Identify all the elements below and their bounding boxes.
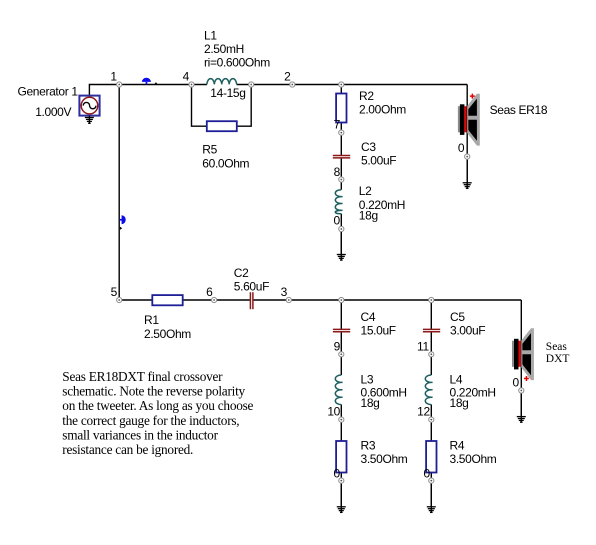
wire DXT speaker drop	[520, 300, 522, 391]
node 2	[290, 82, 295, 87]
ground DXT branch	[517, 393, 526, 422]
svg-text:on the tweeter. As long as you: on the tweeter. As long as you choose	[62, 398, 253, 413]
svg-text:0: 0	[423, 467, 430, 481]
inductor L4 coil	[425, 375, 432, 405]
resistor R3	[336, 441, 346, 473]
svg-text:1: 1	[110, 70, 117, 84]
svg-text:7: 7	[334, 118, 341, 132]
resistor R1	[152, 295, 182, 305]
svg-text:0: 0	[512, 376, 519, 390]
inductor L2 coil	[335, 190, 342, 214]
svg-text:14-15g: 14-15g	[210, 86, 245, 100]
svg-text:18g: 18g	[450, 396, 469, 410]
svg-text:2.00Ohm: 2.00Ohm	[359, 103, 406, 117]
svg-text:10: 10	[327, 405, 340, 419]
node 12	[429, 417, 434, 422]
node 3	[286, 297, 291, 302]
wire node 0 to ground (L2 branch)	[340, 229, 342, 255]
node 8	[339, 177, 344, 182]
svg-text:C5: C5	[450, 310, 465, 324]
svg-text:L2: L2	[359, 184, 372, 198]
node at L1 right	[249, 82, 254, 87]
ground under generator	[85, 116, 94, 124]
blue probe marker on top rail	[142, 78, 151, 85]
svg-text:18g: 18g	[359, 208, 378, 222]
svg-text:11: 11	[417, 339, 429, 353]
node 0 ER18	[465, 154, 470, 159]
svg-text:2: 2	[284, 70, 291, 84]
black arrow tick on top rail	[154, 82, 157, 84]
svg-text:R2: R2	[359, 89, 374, 103]
svg-text:3: 3	[281, 285, 288, 299]
node 10	[339, 417, 344, 422]
svg-text:R1: R1	[144, 313, 159, 327]
svg-text:5.60uF: 5.60uF	[234, 279, 269, 293]
wire R4 to node 0	[430, 473, 432, 481]
node 0 DXT	[519, 388, 524, 393]
node 0 R4 branch	[429, 478, 434, 483]
inductor L1 coil	[207, 79, 237, 85]
wire C5 branch top	[430, 300, 432, 329]
description text block	[62, 369, 253, 457]
wire bus2 node 5 to R1	[119, 299, 152, 301]
wire C4 to L3	[340, 332, 342, 375]
svg-text:3.50Ohm: 3.50Ohm	[361, 452, 408, 466]
wire DXT node to ground	[520, 391, 522, 417]
wire top rail node 1 to node 4	[119, 84, 207, 86]
capacitor C2 plates	[250, 292, 253, 309]
wire top rail L1 right to corner at speaker	[237, 84, 468, 86]
svg-text:L1: L1	[204, 29, 217, 43]
svg-text:6: 6	[206, 285, 213, 299]
ER18 polarity + mark	[470, 94, 475, 99]
svg-text:0: 0	[333, 213, 340, 227]
svg-text:R3: R3	[361, 439, 376, 453]
node 11	[429, 352, 434, 357]
wire C2 to DXT corner	[253, 299, 521, 301]
node 9	[339, 352, 344, 357]
wire L2 to node 0	[340, 214, 342, 229]
svg-text:the correct gauge for the indu: the correct gauge for the inductors,	[62, 413, 239, 428]
svg-text:8: 8	[334, 165, 341, 179]
wire R2 branch top	[340, 85, 342, 94]
wire L3 to R3	[340, 405, 342, 442]
ground R3 branch	[337, 483, 346, 512]
wire generator stem to top rail	[89, 85, 119, 96]
wire node 0 to ground (R4 branch)	[430, 481, 432, 507]
svg-text:C3: C3	[361, 140, 376, 154]
wire C4 branch top	[340, 300, 342, 329]
svg-text:R4: R4	[450, 439, 465, 453]
svg-text:C4: C4	[361, 310, 376, 324]
capacitor C4 plates	[333, 329, 350, 331]
inductor L3 coil	[335, 375, 342, 405]
svg-text:Seas ER18: Seas ER18	[490, 103, 548, 117]
svg-text:0: 0	[333, 467, 340, 481]
node 4	[189, 82, 194, 87]
svg-text:L3: L3	[361, 373, 374, 387]
ground R4 branch	[427, 483, 436, 512]
svg-text:R5: R5	[202, 143, 217, 157]
svg-text:9: 9	[334, 339, 341, 353]
wire ER18 node to ground	[466, 157, 468, 183]
svg-text:small variances in the inducto: small variances in the inductor	[62, 427, 218, 442]
svg-text:0: 0	[458, 141, 465, 155]
svg-text:3.50Ohm: 3.50Ohm	[450, 452, 497, 466]
svg-text:2.50Ohm: 2.50Ohm	[144, 327, 191, 341]
resistor R4	[426, 441, 436, 473]
resistor R2	[336, 94, 346, 123]
junction node top rail R2 branch	[339, 82, 344, 87]
ground ER18 branch	[463, 159, 472, 188]
junction node bus2 C5 branch	[429, 297, 434, 302]
svg-text:schematic. Note the reverse po: schematic. Note the reverse polarity	[62, 384, 245, 399]
generator U1 symbol	[79, 96, 99, 116]
DXT polarity + mark	[524, 376, 529, 381]
node 5	[117, 297, 122, 302]
ground L2 branch	[337, 232, 346, 261]
svg-text:15.0uF: 15.0uF	[361, 324, 396, 338]
wire node 0 to ground (R3 branch)	[340, 481, 342, 507]
junction node bus2 C4 branch	[339, 297, 344, 302]
speaker Seas DXT icon	[512, 328, 534, 380]
svg-text:3.00uF: 3.00uF	[450, 324, 485, 338]
svg-text:12: 12	[417, 405, 430, 419]
svg-text:5: 5	[111, 285, 118, 299]
node 7	[339, 130, 344, 135]
svg-text:Seas: Seas	[546, 341, 568, 353]
svg-text:C2: C2	[234, 266, 249, 280]
wire C3 to L2	[340, 158, 342, 190]
wire R1 to C2	[183, 299, 250, 301]
svg-text:Seas ER18DXT final crossover: Seas ER18DXT final crossover	[62, 369, 223, 384]
svg-text:60.0Ohm: 60.0Ohm	[202, 157, 249, 171]
wire left drop node 1 to node 5	[118, 85, 120, 301]
resistor R5	[207, 121, 237, 131]
capacitor C5 plates	[423, 329, 440, 331]
svg-text:Generator 1: Generator 1	[18, 84, 79, 98]
svg-text:1.000V: 1.000V	[35, 105, 71, 119]
wire R2 to C3	[340, 123, 342, 156]
wire L4 to R4	[430, 405, 432, 442]
blue probe marker on left drop wire	[120, 215, 126, 224]
svg-text:2.50mH: 2.50mH	[204, 42, 244, 56]
svg-text:DXT: DXT	[546, 353, 570, 365]
svg-text:4: 4	[183, 70, 190, 84]
black arrow tick on left drop wire	[120, 227, 122, 230]
node 1	[117, 82, 122, 87]
capacitor C3 plates	[333, 156, 350, 158]
svg-text:ri=0.600Ohm: ri=0.600Ohm	[204, 56, 270, 70]
svg-text:5.00uF: 5.00uF	[361, 154, 396, 168]
node 0 R3 branch	[339, 478, 344, 483]
wire R5 parallel loop	[192, 85, 252, 127]
wire ER18 speaker drop	[466, 85, 468, 157]
node 6	[212, 297, 217, 302]
node 0 L2 branch	[339, 226, 344, 231]
wire C5 to L4	[430, 332, 432, 375]
wire R3 to node 0	[340, 473, 342, 481]
svg-text:resistance can be ignored.: resistance can be ignored.	[62, 442, 193, 457]
svg-text:18g: 18g	[361, 396, 380, 410]
speaker Seas ER18 icon	[458, 94, 480, 146]
svg-text:L4: L4	[450, 373, 463, 387]
